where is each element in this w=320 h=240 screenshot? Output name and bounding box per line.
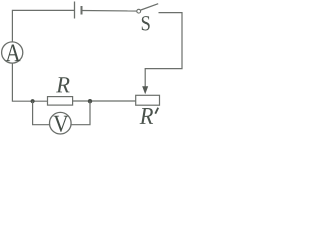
ammeter A: letter (6, 45, 21, 62)
voltmeter V: letter (53, 116, 68, 132)
circuit schematic: battery, switch S, ammeter A, resistor R with voltmeter V in parallel, rheostat R' (0, 0, 186, 138)
wire: voltmeter branch right (junction down and left to voltmeter) (71, 101, 90, 125)
label R' (italic R) (140, 108, 153, 124)
wire: battery right plate to switch pivot (82, 10, 137, 13)
voltmeter V: circle (50, 112, 72, 134)
junction node (right of R) (88, 99, 92, 103)
wire: top-left corner run (battery left plate to top-left corner, down to ammeter top) (12, 10, 74, 42)
resistor R body (48, 97, 73, 106)
battery: short plate (right) (81, 6, 83, 15)
wire: bottom main run, rheostat left terminal to resistor right terminal (73, 100, 136, 102)
junction node (left of R) (30, 99, 34, 103)
wire: switch to right side, down and over to rheostat wiper (145, 13, 182, 88)
label R' (prime mark) (155, 108, 158, 114)
wire: resistor left terminal to bottom-left corner, up to ammeter bottom (12, 63, 47, 101)
wire: voltmeter branch left (junction down and right to voltmeter) (33, 101, 50, 125)
switch S: open blade (141, 4, 159, 10)
switch S: pivot circle (137, 9, 141, 13)
ammeter A: circle (2, 42, 23, 63)
label S (142, 16, 150, 30)
rheostat body R' (136, 95, 160, 105)
label R (italic) (56, 77, 69, 92)
rheostat wiper arrowhead (142, 86, 148, 94)
battery: long plate (left) (74, 2, 76, 19)
